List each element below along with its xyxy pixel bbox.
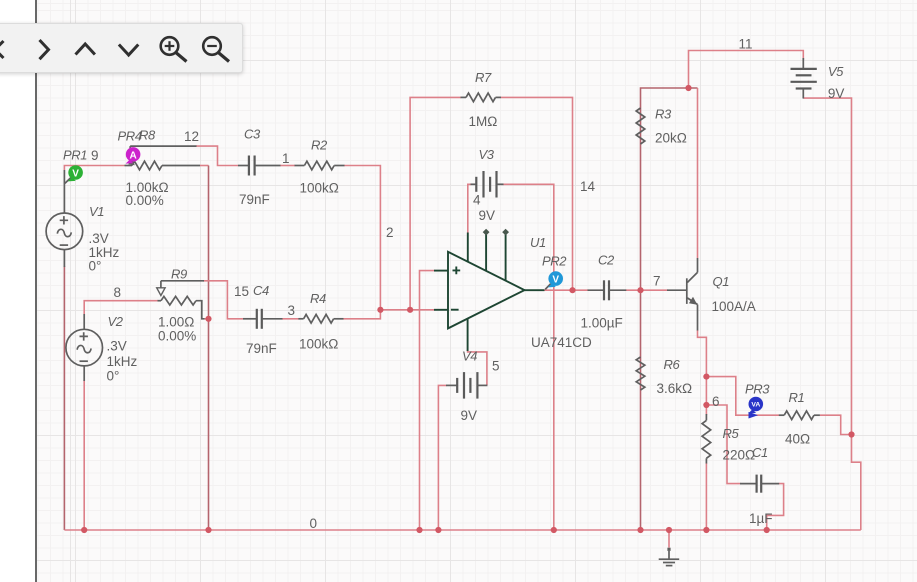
svg-text:R2: R2 [311,138,328,153]
potentiometer R8 [125,146,201,170]
wire C1 right staircase to rail [767,484,784,530]
capacitor C2 [588,280,627,300]
svg-text:2: 2 [386,225,394,240]
capacitor C3 [238,156,281,176]
svg-text:1.00µF: 1.00µF [581,316,623,331]
wire net 0 from op-amp plus input down to rail [420,271,435,530]
probe PR1 voltage (green) [65,165,83,183]
svg-text:R1: R1 [789,390,805,405]
svg-text:0.00%: 0.00% [158,329,196,344]
svg-text:V1: V1 [89,204,104,219]
wire net 6 Q1 emitter down to junction [698,330,707,415]
AC source V2 [66,314,103,381]
probe PR2 voltage (blue) [545,271,563,289]
component and net labels [63,37,844,532]
wire V5 negative down right side [803,98,851,434]
resistor R5 [702,414,711,464]
svg-text:6: 6 [712,394,720,409]
battery V4 [446,372,487,399]
svg-text:3: 3 [288,303,296,318]
svg-text:1kHz: 1kHz [107,354,138,369]
wire R1 right to junction on V5 column [820,415,852,434]
AC source V1 [46,170,83,267]
svg-text:100kΩ: 100kΩ [299,337,338,352]
svg-text:Q1: Q1 [713,274,730,289]
svg-text:100kΩ: 100kΩ [300,181,339,196]
svg-text:3.6kΩ: 3.6kΩ [657,381,693,396]
wire ground stem [668,530,670,548]
svg-text:C1: C1 [752,445,768,460]
svg-text:5: 5 [492,359,500,374]
svg-text:.3V: .3V [107,339,127,354]
svg-text:8: 8 [114,285,122,300]
svg-text:14: 14 [580,179,596,194]
wire net 15 R9 wiper to C4 [203,281,243,319]
svg-text:C4: C4 [253,283,269,298]
svg-text:C3: C3 [244,127,261,142]
wire V1 bottom to rail [63,266,65,530]
svg-text:100A/A: 100A/A [712,299,756,314]
svg-text:15: 15 [234,284,249,299]
wire V3 negative to rail vertical [503,184,554,530]
svg-text:220Ω: 220Ω [723,448,756,463]
wire V4 left to rail [438,385,446,530]
svg-text:PR3: PR3 [745,382,770,397]
svg-text:9: 9 [91,148,99,163]
capacitor C4 [243,309,283,329]
svg-text:4: 4 [473,192,481,207]
svg-text:12: 12 [184,129,199,144]
wire net 7 C2 to Q1 base [626,289,668,291]
wire op-amp V+ pin to V3 [468,184,471,232]
chevron left partial icon [0,41,4,58]
resistor R1 [779,411,820,420]
chevron down icon [119,45,138,56]
wire R9 lower right terminal to net 0 [204,318,209,320]
wire op-amp V- pin to V4 [468,350,487,385]
wire net 14 R7 right down to output [501,97,573,290]
svg-text:U1: U1 [530,235,546,250]
probe PR3 voltage and current (dark blue) [748,397,763,419]
zoom out icon [203,37,229,61]
resistor R3 [636,108,645,144]
wire R3 top column [641,88,698,290]
svg-text:1MΩ: 1MΩ [469,114,498,129]
svg-text:V: V [72,169,79,180]
ground symbol [659,548,680,566]
svg-text:R4: R4 [310,291,326,306]
sidebar divider line [35,0,37,582]
capacitor C1 [740,475,779,493]
svg-text:PR2: PR2 [542,254,567,269]
wire R5 bottom to rail [705,463,707,530]
svg-text:0.00%: 0.00% [126,193,164,208]
svg-text:R9: R9 [171,267,187,282]
svg-text:VA: VA [751,402,760,409]
probe PR4 current (magenta) [126,147,141,164]
svg-text:R3: R3 [655,107,672,122]
svg-text:0°: 0° [107,369,120,384]
wire net 6 branch to C1 [706,405,740,484]
wire net 8 V2 to R9 [84,301,158,314]
svg-text:1µF: 1µF [749,511,773,526]
wire net 11 up and across to V5 [689,51,804,89]
svg-text:20kΩ: 20kΩ [655,131,687,146]
svg-text:9V: 9V [461,408,478,423]
wire R6 bottom column [640,290,642,530]
chevron right icon [40,40,49,59]
wire net 3 C4 to R4 [282,318,299,320]
svg-text:11: 11 [739,37,753,52]
resistor R7 [461,93,502,102]
chevron up icon [76,44,95,55]
wire V2 bottom to rail [83,380,85,530]
op-amp U1 [434,229,545,351]
svg-text:.3V: .3V [89,231,109,246]
wire R8 right terminal to net 0 vertical [200,165,209,167]
wire net 2 minus input row [380,309,434,311]
svg-text:R8: R8 [139,128,156,143]
potentiometer R9 [157,281,205,319]
battery V3 [471,171,504,198]
svg-text:V2: V2 [108,314,124,329]
svg-text:0°: 0° [89,259,102,274]
wire net 2 from R2 down to op-amp minus node [344,166,380,310]
wire net 6 branch to PR3 and R1 [706,377,779,416]
svg-text:V3: V3 [479,147,495,162]
svg-text:R6: R6 [664,357,681,372]
wire net 1 C3 to R2 [280,165,295,167]
svg-text:79nF: 79nF [246,341,277,356]
wire R4 to net 2 junction [343,310,380,319]
resistor R2 [295,161,345,170]
svg-text:1.00Ω: 1.00Ω [158,315,194,330]
wire output node to C2 [544,289,588,291]
battery V5 [791,58,817,99]
wire staircase to bottom rail right corner [852,435,861,531]
svg-text:79nF: 79nF [239,192,270,207]
svg-text:A: A [129,151,136,162]
transistor Q1 [667,258,698,331]
zoom in icon [161,37,187,61]
resistor R6 [636,357,645,390]
svg-text:9V: 9V [479,208,496,223]
svg-text:V5: V5 [828,64,844,79]
svg-text:7: 7 [653,274,661,289]
svg-text:9V: 9V [828,86,845,101]
wire net 9 top-left horizontal V1 to R8 [64,166,124,171]
svg-text:1: 1 [282,151,290,166]
wire Q1 collector vertical [697,88,699,258]
svg-text:PR1: PR1 [63,148,87,163]
svg-text:V4: V4 [462,349,477,364]
svg-text:0: 0 [310,516,318,531]
wire bottom rail net 0 [64,529,860,531]
wire net 0 long vertical from R8 down to bottom rail [208,166,210,531]
wire net 12 from R8 wiper to C3 [196,146,238,165]
svg-text:V: V [552,275,559,286]
resistor R4 [298,315,343,324]
wire R7 left vertical [410,97,461,309]
svg-text:40Ω: 40Ω [785,432,810,447]
svg-text:UA741CD: UA741CD [531,335,592,350]
svg-text:R7: R7 [475,70,492,85]
svg-text:C2: C2 [598,253,615,268]
svg-text:R5: R5 [723,426,740,441]
